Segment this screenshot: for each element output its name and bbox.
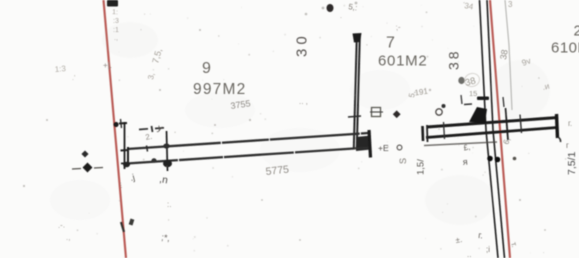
svg-text:S: S	[398, 158, 408, 164]
wire black vertical pair left line	[480, 0, 499, 258]
svg-text:.-.: .-.	[57, 220, 65, 230]
wall right end cap at door	[369, 130, 371, 158]
faint text column top-left	[112, 9, 119, 42]
dash left of triangle	[464, 103, 472, 106]
cross tick on left wall	[167, 131, 168, 171]
wire black vertical pair right line	[487, 0, 505, 258]
svg-text:38: 38	[498, 49, 510, 61]
diamond blob far left small	[81, 150, 88, 157]
svg-text:7,5/1: 7,5/1	[566, 151, 578, 175]
small tick left	[461, 95, 462, 104]
svg-text:;*,: ;*,	[161, 232, 171, 243]
svg-text:.. ,: .. ,	[299, 97, 308, 106]
dark triangle blob at junction	[469, 107, 487, 123]
dark speck left edge bottom	[129, 219, 135, 226]
svg-text:2: 2	[574, 23, 579, 40]
threshold line across door gap	[424, 142, 497, 146]
red fold line right	[490, 0, 510, 258]
svg-text:+E: +E	[378, 143, 389, 153]
wall horizontal left bottom line	[127, 148, 369, 164]
svg-text:9: 9	[202, 60, 211, 77]
wall left end cap tall tick	[124, 122, 126, 169]
red fold line left	[104, 0, 127, 258]
short black vertical right of red at wall	[506, 108, 509, 140]
diamond dot	[393, 110, 401, 118]
junction blob cross/bottom	[163, 160, 172, 168]
wall horizontal left top line	[127, 133, 369, 149]
dash-dot at red line mid	[113, 122, 118, 127]
diamond blob far left big with dashes	[83, 163, 93, 173]
wall horizontal right top line	[427, 118, 558, 128]
junction blob cross/top	[163, 143, 169, 148]
wall left end inner cap	[127, 147, 129, 164]
tick on right wall far	[520, 115, 522, 134]
wall right segment right end cap	[557, 114, 558, 138]
svg-text:г.: г.	[478, 230, 484, 240]
wall right segment left end cap	[421, 126, 424, 141]
svg-text:1:3: 1:3	[54, 64, 66, 74]
svg-text:3: 3	[508, 0, 513, 9]
svg-text:1:: 1:	[112, 9, 118, 16]
paper mottle	[50, 22, 550, 225]
top center blob	[327, 4, 334, 12]
svg-text:г.: г.	[568, 119, 572, 128]
wall vertical center left line	[354, 36, 357, 148]
wall horizontal right bottom line	[426, 128, 557, 138]
dark blob left of pair	[458, 77, 464, 84]
svg-text:601M2: 601M2	[378, 53, 427, 70]
svg-text:г: г	[566, 141, 569, 150]
faint gray vertical line top right	[505, 0, 512, 110]
cross tick on right wall	[444, 122, 445, 139]
svg-text:.,: .,	[66, 233, 70, 242]
svg-text:7: 7	[386, 35, 395, 52]
svg-text:.': .'	[72, 75, 75, 82]
top-left dark blob at edge	[107, 0, 118, 7]
svg-text:+|.: +|.	[103, 61, 112, 70]
door gap circle o	[397, 145, 402, 150]
svg-text:.: .	[340, 13, 342, 20]
svg-text:я: я	[462, 157, 468, 167]
small o circle near right wall	[436, 109, 442, 115]
junction dark fill wall end	[356, 136, 371, 152]
svg-text::.: :.	[167, 200, 171, 209]
small tick above wall right of red	[503, 97, 504, 107]
dash-dot marks above wall left	[139, 128, 148, 131]
wall vertical top cap	[353, 33, 362, 43]
svg-text:610M2: 610M2	[551, 40, 579, 57]
svg-text:15: 15	[469, 89, 477, 98]
svg-text:..: ..	[467, 250, 471, 258]
svg-text:30: 30	[294, 32, 311, 57]
tick on vertical wall	[348, 116, 361, 117]
svg-text:1,5/: 1,5/	[416, 159, 427, 175]
junction dots below wall on pair	[487, 156, 493, 162]
wall vertical center right line	[357, 36, 360, 148]
dark tick on red bottom	[121, 222, 124, 232]
junction tick above pair	[477, 97, 489, 101]
window square symbol	[372, 108, 381, 117]
svg-text:38: 38	[446, 48, 462, 70]
svg-text:;i: ;i	[486, 245, 490, 254]
